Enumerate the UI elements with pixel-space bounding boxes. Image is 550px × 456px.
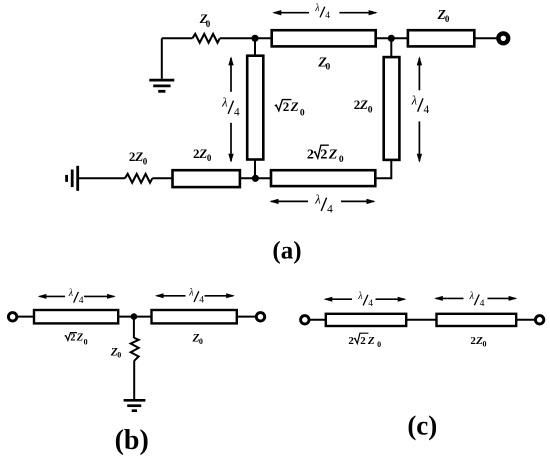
wire [133, 361, 135, 400]
dimension arrow lambda/4 (c-right) right half [488, 296, 518, 301]
label lambda/4 (b-right) [188, 288, 204, 306]
port Pc2 [535, 316, 543, 324]
dimension arrow lambda/4 (c-left) right half [376, 297, 407, 302]
transmission line TL2 Z0 [408, 30, 474, 46]
dimension arrow lambda/4 (b-left) left half [38, 294, 65, 299]
svg-text:2Z0: 2Z0 [320, 148, 344, 165]
svg-text:(b): (b) [115, 425, 149, 456]
dimension arrow lambda/4 (b-right) left half [155, 293, 186, 298]
transmission line TLC2 2Z0 [437, 314, 517, 326]
wire [162, 37, 193, 39]
wire [254, 160, 256, 179]
svg-text:2Z0: 2Z0 [470, 335, 486, 349]
dimension arrow lambda/4 bottom-left half [269, 199, 308, 204]
wire [220, 37, 271, 39]
resistor RB Z0 (vertical) [131, 338, 139, 361]
node N1 [251, 35, 258, 42]
wire [516, 319, 534, 321]
ground GB [124, 400, 146, 410]
wire [161, 38, 163, 79]
label lambda/4 (b-left) [68, 288, 84, 306]
wire [119, 316, 151, 318]
node NB [131, 313, 138, 320]
wire [152, 177, 172, 179]
ground G1 [149, 80, 174, 91]
label lambda/4 (right) [411, 93, 430, 116]
svg-text:Z0: Z0 [110, 346, 121, 359]
node N3 [252, 175, 259, 182]
wire [240, 177, 271, 179]
svg-text:(c): (c) [407, 410, 437, 440]
dimension arrow lambda/4 left up [228, 56, 233, 92]
svg-text:Z0: Z0 [437, 7, 450, 24]
transmission line VTL1 sqrt2-Z0 [247, 56, 263, 160]
dimension arrow lambda/4 left down [228, 123, 233, 163]
wire [376, 160, 391, 179]
port P1 [498, 33, 508, 43]
svg-text:2: 2 [307, 148, 314, 163]
transmission line TL4 2sqrt2-Z0 [271, 170, 375, 186]
wire [390, 38, 392, 57]
label lambda/4 (left) [221, 96, 240, 119]
label sqrt2 Z0 (VTL1) [275, 99, 305, 118]
dimension arrow lambda/4 top-right half [339, 10, 377, 15]
label lambda/4 (bottom) [314, 193, 333, 216]
svg-text:2Z0: 2Z0 [354, 97, 373, 115]
wire [406, 319, 436, 321]
svg-text:2Z0: 2Z0 [360, 335, 381, 349]
port Pb2 [256, 313, 264, 321]
svg-text:Z0: Z0 [317, 56, 330, 73]
svg-text:(a): (a) [272, 238, 301, 265]
wire [133, 317, 135, 339]
dimension arrow lambda/4 (b-right) right half [205, 293, 235, 298]
wire [17, 316, 34, 318]
transmission line TL1 Z0 [272, 30, 376, 46]
transmission line TLB1 sqrt2-Z0 [34, 310, 118, 323]
wire [475, 37, 497, 39]
dimension arrow lambda/4 right down [417, 121, 422, 162]
wire [79, 177, 125, 179]
dimension arrow lambda/4 (c-left) left half [324, 297, 352, 302]
dimension arrow lambda/4 (b-left) right half [84, 294, 116, 299]
wire [310, 319, 326, 321]
resistor R1 Z0 [192, 34, 219, 43]
transmission line TL3 2Z0 [173, 170, 240, 187]
svg-text:2Z0: 2Z0 [283, 99, 305, 118]
transmission line TLC1 2sqrt2-Z0 [326, 314, 406, 326]
label 2sqrt2 Z0 (TL4) [307, 145, 344, 165]
label lambda/4 (top) [314, 3, 330, 21]
svg-text:2Z0: 2Z0 [193, 146, 212, 163]
node N2 [388, 35, 395, 42]
svg-text:Z0: Z0 [199, 11, 211, 29]
dimension arrow lambda/4 (c-right) left half [434, 296, 463, 301]
label 2sqrt2 Z0 (TLC1) [348, 333, 381, 349]
ground G2 (sideways) [67, 166, 78, 191]
svg-text:2Z0: 2Z0 [70, 333, 87, 347]
dimension arrow lambda/4 top-left half [272, 10, 309, 15]
label lambda/4 (c-left) [357, 291, 373, 309]
resistor R2 2Z0 [125, 174, 152, 183]
label sqrt2 Z0 (TLB1) [65, 333, 88, 347]
svg-text:Z0: Z0 [192, 333, 203, 346]
transmission line TLB2 Z0 [152, 310, 237, 323]
wire [376, 37, 408, 39]
dimension arrow lambda/4 right up [417, 56, 422, 90]
wire [237, 316, 256, 318]
svg-text:2Z0: 2Z0 [129, 149, 148, 166]
wire [254, 38, 256, 55]
port Pb1 [8, 313, 16, 321]
dimension arrow lambda/4 bottom-right half [341, 199, 376, 204]
svg-text:2: 2 [348, 335, 354, 347]
label lambda/4 (c-right) [469, 291, 485, 309]
port Pc1 [301, 316, 309, 324]
transmission line VTL2 2Z0 [384, 57, 400, 160]
